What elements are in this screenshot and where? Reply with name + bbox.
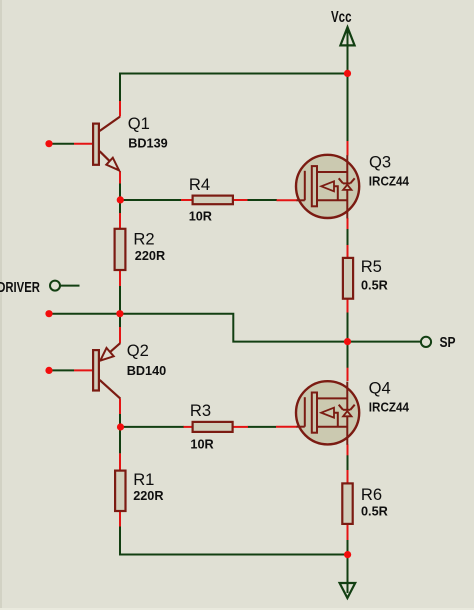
- svg-text:10R: 10R: [190, 437, 213, 451]
- svg-text:0.5R: 0.5R: [361, 278, 388, 292]
- svg-text:R6: R6: [361, 485, 382, 504]
- svg-text:IRCZ44: IRCZ44: [369, 174, 409, 189]
- svg-text:Q2: Q2: [127, 341, 149, 360]
- svg-text:R4: R4: [189, 175, 210, 194]
- svg-text:SP: SP: [440, 334, 456, 350]
- svg-text:DRIVER: DRIVER: [0, 279, 40, 296]
- svg-text:Q1: Q1: [128, 114, 150, 133]
- svg-text:R1: R1: [133, 470, 154, 489]
- svg-text:R2: R2: [133, 229, 154, 248]
- svg-text:R5: R5: [361, 257, 382, 276]
- svg-text:Q4: Q4: [369, 378, 391, 397]
- svg-text:0.5R: 0.5R: [361, 505, 388, 519]
- svg-text:220R: 220R: [135, 249, 165, 263]
- svg-text:IRCZ44: IRCZ44: [369, 400, 409, 415]
- svg-text:R3: R3: [190, 401, 211, 420]
- svg-text:BD139: BD139: [128, 137, 168, 151]
- svg-text:Vcc: Vcc: [331, 7, 352, 25]
- svg-text:220R: 220R: [133, 489, 163, 503]
- svg-text:10R: 10R: [189, 209, 212, 223]
- svg-text:BD140: BD140: [127, 364, 167, 378]
- svg-text:Q3: Q3: [369, 152, 391, 171]
